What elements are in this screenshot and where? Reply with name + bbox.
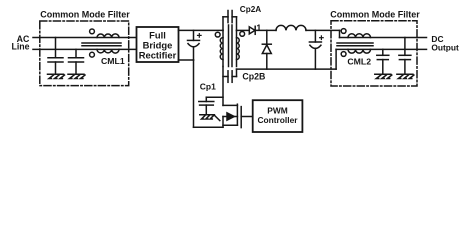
label Cp1 — [200, 82, 216, 92]
CML2 bottom winding bumps — [348, 49, 371, 53]
svg-text:Rectifier: Rectifier — [139, 49, 177, 60]
CML2 core lines — [337, 42, 373, 44]
wire top rail jog into CML2 — [339, 30, 341, 37]
diode D2 freewheeling — [262, 30, 271, 69]
svg-text:Cp2A: Cp2A — [240, 5, 261, 14]
ground (earth) under right cap A — [375, 74, 392, 78]
capacitor output C2 (polarized) — [309, 30, 323, 69]
block full bridge rectifier U1 — [137, 27, 179, 62]
capacitor Y-cap left filter A (top line to earth) — [48, 38, 63, 75]
block PWM controller U2 — [253, 100, 303, 132]
svg-text:Common Mode Filter: Common Mode Filter — [330, 10, 420, 20]
wire source return bottom — [194, 126, 224, 128]
T1 phase dot secondary — [240, 32, 245, 37]
transformer T1 — [215, 25, 244, 67]
CML1 phase dot top — [90, 29, 95, 34]
capacitor Y-cap right filter A (bottom line to earth) — [377, 49, 389, 74]
capacitor Cp2B (primary-secondary bridge, bottom) — [223, 69, 237, 82]
CML2 phase dot top — [341, 29, 346, 34]
common mode choke CML1 — [82, 29, 121, 57]
common mode filter box 2 (dashed) — [331, 21, 417, 86]
Q1 gate lead to PWM — [241, 116, 253, 118]
common mode filter box 1 (dashed) — [40, 21, 129, 86]
wire output top rail — [255, 29, 276, 31]
wire primary bottom / drain line — [222, 67, 224, 106]
node DC Output label — [431, 34, 459, 52]
node AC Line label — [11, 34, 30, 52]
label CML1 — [101, 56, 125, 66]
svg-text:CML1: CML1 — [101, 56, 125, 66]
wire negative rail down — [193, 60, 195, 127]
label Cp2A — [240, 5, 261, 14]
CML1 core lines — [82, 42, 121, 44]
Q1 body line with arrow — [223, 116, 228, 118]
svg-text:PWM: PWM — [267, 105, 287, 115]
Q1 drain stub — [223, 104, 237, 106]
wire secondary return rail — [237, 68, 337, 70]
T1 phase dot primary — [215, 32, 220, 37]
ground (earth) under cap A — [48, 74, 65, 78]
wire CML2 bottom winding line to DC out — [336, 48, 426, 50]
capacitor bulk C1 (polarized) — [188, 30, 202, 60]
capacitor Y-cap left filter B (bottom line to earth) — [69, 49, 84, 74]
Q1 source stub — [223, 124, 237, 126]
label Common Mode Filter (right) — [330, 10, 420, 20]
svg-text:Cp2B: Cp2B — [242, 71, 265, 81]
wire AC top line into CML1 top winding to rectifier — [33, 37, 137, 39]
CML1 bottom winding bumps — [97, 49, 119, 53]
svg-text:Output: Output — [431, 42, 459, 52]
svg-text:1: 1 — [256, 23, 261, 33]
label 1 of D1 — [256, 23, 261, 33]
CML2 phase dot bottom — [341, 52, 346, 57]
CML1 top winding bumps — [97, 34, 119, 38]
CML1 phase dot bottom — [90, 52, 95, 57]
label Cp2B — [242, 71, 265, 81]
svg-text:Controller: Controller — [257, 115, 298, 125]
T1 secondary winding (right, bumps right) — [236, 30, 238, 66]
ground (earth) under Cp1 — [200, 115, 220, 121]
wire secondary top to D1 — [237, 29, 250, 31]
Q1 gate line — [240, 107, 242, 128]
capacitor Cp2A (primary-secondary bridge, top) — [223, 11, 237, 31]
label Common Mode Filter (left) — [40, 10, 130, 20]
label CML2 — [347, 57, 371, 67]
ground (earth) under right cap B — [397, 74, 414, 78]
inductor L1 output choke — [276, 25, 306, 30]
transistor Q1 MOSFET — [223, 104, 253, 127]
Q1 body-source vertical — [222, 117, 224, 128]
T1 primary winding (left, bumps left) — [222, 30, 224, 66]
diode D1 (series output) — [249, 26, 255, 34]
capacitor Y-cap right filter B (top line to earth) — [399, 38, 411, 75]
wire AC bottom line into CML1 bottom winding to rectifier — [33, 48, 137, 50]
CML2 top winding bumps — [348, 34, 371, 38]
wire return rail jog up into CML2 — [335, 49, 337, 69]
T1 core lines — [228, 25, 230, 67]
svg-text:Line: Line — [11, 42, 29, 52]
wire rectifier + output to transformer primary top — [179, 29, 224, 31]
ground (earth) under cap B — [68, 74, 85, 78]
Q1 channel line — [236, 104, 238, 125]
wire rectifier - output — [179, 59, 194, 61]
capacitor Cp1 (drain to earth) — [199, 97, 223, 114]
svg-text:Common Mode Filter: Common Mode Filter — [40, 10, 130, 20]
svg-text:CML2: CML2 — [347, 57, 371, 67]
wire CML2 top winding line to DC out — [340, 37, 427, 39]
common mode choke CML2 — [337, 29, 373, 57]
svg-text:Cp1: Cp1 — [200, 82, 216, 92]
